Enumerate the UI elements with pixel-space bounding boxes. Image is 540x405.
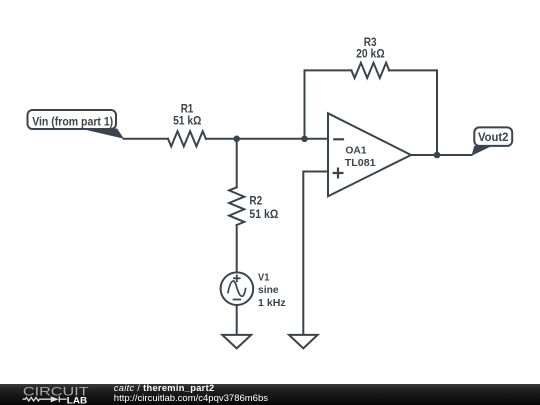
V1 sine waveform bbox=[228, 281, 246, 296]
ground (below V1) bbox=[222, 335, 251, 349]
svg-text:51 kΩ: 51 kΩ bbox=[173, 113, 201, 127]
wire node A to op-amp minus input bbox=[237, 138, 328, 140]
net flag Vout2 bbox=[472, 127, 513, 155]
svg-text:caitc / theremin_part2: caitc / theremin_part2 bbox=[114, 383, 215, 393]
wire down to output node bbox=[436, 70, 438, 155]
wire node A down to R2 bbox=[236, 139, 238, 188]
resistor R3 bbox=[351, 63, 389, 78]
wire op-amp output to Vout2 bbox=[411, 154, 472, 156]
junction node output bbox=[434, 152, 441, 159]
ground (op-amp plus input) bbox=[289, 335, 318, 349]
resistor R1 bbox=[168, 131, 206, 146]
op-amp minus symbol bbox=[333, 138, 344, 140]
wire feedback tap up from node B bbox=[304, 70, 306, 138]
wire Vin to R1 bbox=[124, 138, 169, 140]
svg-text:sine: sine bbox=[258, 284, 279, 296]
resistor R2 bbox=[229, 187, 244, 225]
svg-text:TL081: TL081 bbox=[345, 158, 376, 169]
wire R2 to V1 bbox=[236, 225, 238, 272]
op-amp OA1 triangle bbox=[328, 113, 411, 196]
svg-text:20 kΩ: 20 kΩ bbox=[356, 47, 385, 61]
svg-text:51 kΩ: 51 kΩ bbox=[249, 207, 278, 221]
wire V1 to ground bbox=[236, 305, 238, 335]
wire plus input bbox=[303, 172, 328, 335]
svg-text:R2: R2 bbox=[249, 193, 262, 207]
op-amp plus symbol bbox=[333, 168, 344, 179]
V1 plus sign bbox=[233, 275, 241, 283]
svg-text:OA1: OA1 bbox=[345, 146, 367, 157]
voltage source V1 circle bbox=[221, 272, 254, 305]
net flag Vin (from part 1) bbox=[28, 110, 125, 139]
CircuitLab logo resistor-diode squiggle bbox=[23, 396, 67, 402]
svg-text:Vin (from part 1): Vin (from part 1) bbox=[32, 114, 113, 128]
wire to R3 bbox=[305, 69, 352, 71]
V1 minus sign bbox=[233, 299, 241, 301]
junction node A (R1/R2) bbox=[233, 136, 240, 143]
wire R1 to node A bbox=[206, 138, 237, 140]
svg-text:V1: V1 bbox=[258, 272, 270, 284]
svg-text:1 kHz: 1 kHz bbox=[258, 297, 286, 309]
svg-text:LAB: LAB bbox=[67, 395, 88, 405]
svg-text:Vout2: Vout2 bbox=[478, 130, 509, 144]
junction node B (feedback tap) bbox=[301, 136, 308, 143]
svg-text:http://circuitlab.com/c4pqv378: http://circuitlab.com/c4pqv3786m6bs bbox=[114, 393, 268, 404]
wire R3 to right corner bbox=[389, 69, 437, 71]
